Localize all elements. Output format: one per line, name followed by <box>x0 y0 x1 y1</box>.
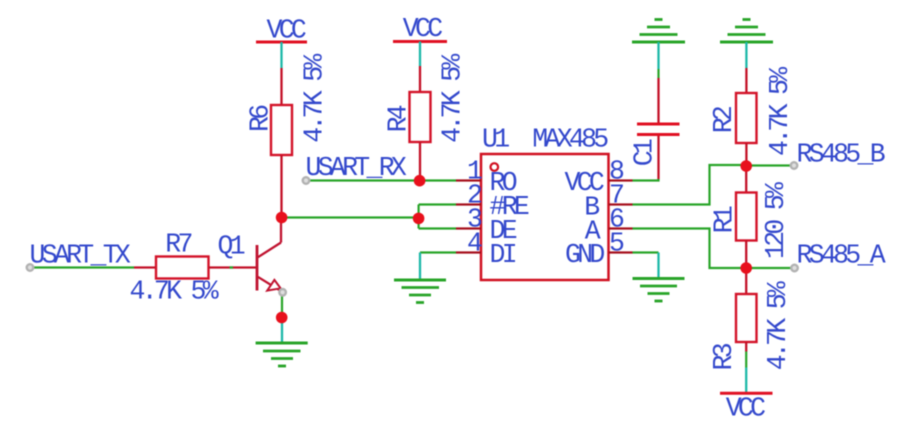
wire (pin 8 to C1) <box>633 179 659 181</box>
svg-text:VCC: VCC <box>726 394 765 424</box>
resistor R2 <box>709 67 795 166</box>
pin 7 stub <box>609 203 633 205</box>
junction (R4 / USART_RX) <box>414 175 426 187</box>
pin 1 stub <box>456 179 481 181</box>
net port RS485_A <box>797 241 886 271</box>
wire (pin 7 to B node) <box>633 165 747 205</box>
port dot USART_RX <box>303 177 310 184</box>
wire (B node to RS485_B port) <box>746 164 791 166</box>
svg-text:Q1: Q1 <box>218 232 245 262</box>
port dot USART_TX <box>27 264 34 271</box>
pin 6 stub <box>609 227 633 229</box>
port dot RS485_B <box>791 162 798 169</box>
svg-text:U1: U1 <box>482 125 509 155</box>
net port RS485_B <box>797 140 885 170</box>
svg-text:C1: C1 <box>630 139 660 166</box>
svg-text:4.7K 5%: 4.7K 5% <box>300 54 330 143</box>
ground (above C1) <box>632 20 685 70</box>
pin 2 stub <box>456 203 481 205</box>
pin 5 stub <box>609 251 633 253</box>
net port USART_RX <box>306 153 407 183</box>
svg-text:R6: R6 <box>245 105 275 132</box>
ground (below Q1) <box>256 318 308 367</box>
net port USART_TX <box>30 241 131 271</box>
junction (node A) <box>740 262 752 274</box>
wire (pin 4 to ground) <box>420 253 456 281</box>
svg-text:R1: R1 <box>710 206 740 233</box>
svg-text:DI: DI <box>490 240 516 270</box>
wire (pin 5 to ground) <box>633 253 659 279</box>
ground (above R2) <box>720 20 773 69</box>
wire (collector node to x418) <box>282 216 419 218</box>
svg-text:4.7K 5%: 4.7K 5% <box>763 281 793 370</box>
capacitor C1 <box>630 69 680 179</box>
ground (below pin 4) <box>394 280 446 303</box>
svg-text:MAX485: MAX485 <box>532 125 608 155</box>
junction (pins 2-3 tie) <box>413 213 425 225</box>
svg-text:4.7K 5%: 4.7K 5% <box>438 54 468 143</box>
wire (to pin 2) <box>419 203 456 205</box>
svg-text:R7: R7 <box>165 230 191 260</box>
port dot RS485_A <box>791 265 798 272</box>
wire (A node to RS485_A port) <box>746 267 791 269</box>
wire (USART_RX to pin 1) <box>309 179 456 181</box>
op-amp U1 body (MAX485) <box>481 125 609 281</box>
svg-text:4.7K 5%: 4.7K 5% <box>765 67 795 156</box>
junction (R6 / collector node) <box>276 212 288 224</box>
resistor R1 <box>710 166 791 268</box>
svg-text:4.7K 5%: 4.7K 5% <box>130 277 219 307</box>
pin names left <box>490 168 529 270</box>
resistor R3 <box>709 268 793 371</box>
svg-text:USART_RX: USART_RX <box>306 153 407 183</box>
pin-end dot Q1 emitter <box>279 289 286 296</box>
pin 3 stub <box>456 227 481 229</box>
resistor R7 <box>130 230 258 307</box>
VCC symbol (above R4) <box>393 14 447 66</box>
svg-text:R4: R4 <box>384 105 414 132</box>
svg-text:RS485_A: RS485_A <box>797 241 886 271</box>
resistor R4 <box>384 54 468 181</box>
wire (Q1 emitter down) <box>281 294 283 318</box>
svg-text:5: 5 <box>609 228 624 258</box>
pin 8 stub <box>609 179 633 181</box>
wire (vertical pin2-pin3 tie) <box>418 205 420 229</box>
wire (R3 to VCC) <box>745 352 747 368</box>
pin names right <box>565 168 605 270</box>
svg-text:R2: R2 <box>709 106 739 133</box>
svg-text:VCC: VCC <box>403 14 442 44</box>
VCC symbol (below R3, flipped) <box>720 368 773 424</box>
svg-text:USART_TX: USART_TX <box>30 241 131 271</box>
wire (pin 6 to A node) <box>633 229 747 269</box>
svg-text:GND: GND <box>565 240 604 270</box>
svg-text:120 5%: 120 5% <box>761 182 791 259</box>
wire (R7 to Q1 base, short) <box>230 266 234 268</box>
svg-text:R3: R3 <box>709 343 739 370</box>
VCC symbol (above R6) <box>256 16 307 69</box>
wire (USART_TX to R7) <box>33 266 134 268</box>
pin numbers left <box>467 156 482 258</box>
junction (node B) <box>740 160 752 172</box>
wire (to pin 3) <box>419 227 456 229</box>
ground (below pin 5) <box>633 279 685 302</box>
transistor Q1 <box>218 222 282 291</box>
junction (emitter/ground) <box>276 312 288 324</box>
pin numbers right <box>609 156 624 258</box>
svg-text:RS485_B: RS485_B <box>797 140 885 170</box>
resistor R6 <box>245 54 329 218</box>
pin 4 stub <box>456 251 481 253</box>
